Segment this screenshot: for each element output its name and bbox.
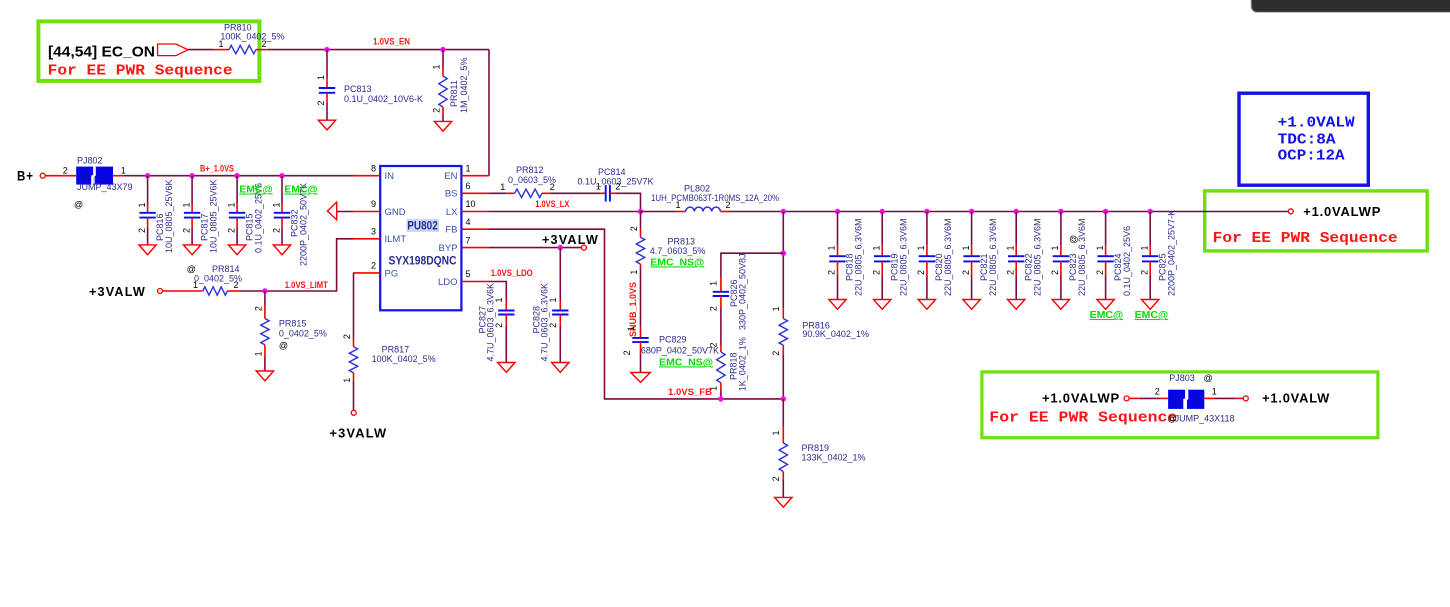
label EMC@ (1135, 309, 1169, 321)
off-page connector EC_ON (158, 44, 188, 56)
svg-text:PR815: PR815 (279, 319, 307, 329)
resistor PR813 4.7_0603_5% (629, 212, 705, 275)
ground (183, 245, 200, 255)
note box "EC_ON / For EE PWR Sequence" (38, 21, 259, 81)
svg-text:1: 1 (1095, 245, 1105, 250)
capacitor PC816 10U_0805_25V6K (137, 176, 174, 253)
svg-text:PC814: PC814 (598, 167, 626, 177)
label For EE PWR Sequence (989, 410, 1177, 427)
wire (1204, 397, 1243, 399)
svg-text:1: 1 (432, 64, 442, 69)
junction (1148, 209, 1153, 214)
junction (1058, 209, 1063, 214)
svg-text:+3VALW: +3VALW (542, 232, 599, 247)
wire LX to PL802 (641, 211, 677, 213)
svg-text:2: 2 (254, 306, 264, 311)
ground (918, 300, 935, 310)
svg-text:For EE PWR Sequence: For EE PWR Sequence (989, 410, 1177, 427)
net label 1.0VS_FB (668, 387, 713, 397)
svg-text:PJ802: PJ802 (77, 156, 103, 166)
svg-text:IN: IN (385, 171, 395, 182)
svg-text:1UH_PCMB063T-1R0MS_12A_20%: 1UH_PCMB063T-1R0MS_12A_20% (651, 193, 779, 203)
svg-text:0.1U_0402_10V6-K: 0.1U_0402_10V6-K (344, 94, 423, 104)
capacitor PC819 22U_0805_6.3V6M (871, 212, 908, 300)
svg-text:1: 1 (1005, 245, 1015, 250)
ground (139, 245, 156, 255)
svg-text:EMC_NS@: EMC_NS@ (659, 356, 713, 368)
svg-text:EMC@: EMC@ (1090, 309, 1124, 321)
svg-text:@: @ (187, 264, 196, 274)
net label 1.0VS_LX (535, 199, 569, 209)
browser overlay bar (1251, 0, 1450, 12)
svg-text:1: 1 (500, 182, 505, 192)
svg-text:0_0402_5%: 0_0402_5% (279, 329, 327, 339)
svg-text:2: 2 (182, 228, 192, 233)
op-amp regulator U1 PU802 SYX198DQNC (353, 163, 489, 310)
svg-text:EN: EN (444, 171, 457, 182)
port +1.0VALW (1243, 391, 1330, 406)
wire (551, 192, 601, 194)
wire EC_ON to PR810 (188, 49, 229, 51)
note box +1.0VALWP / For EE PWR Sequence (1205, 191, 1428, 251)
wire net 1.0VS_LX (489, 211, 641, 213)
svg-text:JUMP_43X118: JUMP_43X118 (1175, 414, 1235, 424)
wire net +1.0VALWP rail (730, 211, 1289, 213)
svg-text:PR811: PR811 (449, 80, 459, 107)
power port +3VALW (542, 232, 599, 250)
ground (874, 300, 891, 310)
svg-text:[44,54] EC_ON: [44,54] EC_ON (48, 44, 155, 61)
ground (256, 371, 273, 381)
capacitor PC827 4.7U_0603_6.3V6K (478, 283, 515, 363)
svg-text:BYP: BYP (438, 243, 457, 254)
svg-text:PC829: PC829 (659, 335, 687, 345)
label [44,54] EC_ON (48, 44, 155, 61)
svg-text:1: 1 (1193, 395, 1198, 405)
svg-text:1: 1 (193, 280, 198, 290)
label For EE PWR Sequence (1213, 230, 1398, 247)
svg-text:@: @ (74, 200, 83, 210)
svg-text:22U_0805_6.3V6M: 22U_0805_6.3V6M (1077, 218, 1087, 296)
jumper PJ803 JUMP_43X118 (1155, 373, 1235, 424)
capacitor PC815 0.1U_0402_25V6 (227, 176, 264, 253)
svg-text:+1.0VALWP: +1.0VALWP (1042, 391, 1120, 406)
capacitor PC826 330P_0402_50V8J (709, 253, 748, 345)
svg-text:10U_0805_25V6K: 10U_0805_25V6K (209, 179, 219, 253)
svg-text:2: 2 (1155, 386, 1160, 396)
ground (775, 497, 792, 507)
svg-text:100K_0402_5%: 100K_0402_5% (372, 354, 436, 364)
ground (1052, 300, 1069, 310)
svg-text:2: 2 (871, 270, 881, 275)
svg-text:1: 1 (709, 386, 719, 391)
svg-text:6: 6 (466, 181, 471, 191)
ground (434, 121, 451, 131)
svg-text:1: 1 (629, 270, 639, 275)
svg-text:PC813: PC813 (344, 84, 372, 94)
svg-text:FB: FB (445, 225, 457, 236)
svg-text:0.1U_0402_25V6: 0.1U_0402_25V6 (1122, 226, 1132, 296)
svg-text:4.7U_0603_6.3V6K: 4.7U_0603_6.3V6K (486, 283, 496, 362)
svg-text:1.0VS_LX: 1.0VS_LX (535, 199, 569, 209)
svg-text:PR817: PR817 (382, 345, 410, 355)
capacitor PC829 680P_0402_50V7K (622, 326, 719, 372)
svg-text:2: 2 (1174, 395, 1179, 405)
svg-text:1: 1 (675, 200, 680, 210)
svg-text:5: 5 (466, 269, 471, 279)
svg-text:2: 2 (771, 351, 781, 356)
svg-text:2: 2 (63, 166, 68, 176)
svg-text:PL802: PL802 (684, 183, 710, 193)
svg-text:@: @ (279, 341, 288, 351)
wire BYP net (489, 247, 581, 249)
wire (617, 193, 641, 211)
svg-text:330P_0402_50V8J: 330P_0402_50V8J (737, 253, 747, 330)
svg-text:1: 1 (271, 202, 281, 207)
svg-text:+1.0VALWP: +1.0VALWP (1303, 204, 1381, 219)
svg-text:1: 1 (254, 351, 264, 356)
svg-text:EMC@: EMC@ (284, 184, 318, 196)
svg-text:+3VALW: +3VALW (89, 284, 146, 299)
svg-text:7: 7 (466, 235, 471, 245)
svg-text:133K_0402_1%: 133K_0402_1% (802, 453, 866, 463)
svg-text:100K_0402_5%: 100K_0402_5% (220, 32, 284, 42)
net label 1.0VS_LDO (491, 268, 533, 278)
svg-text:1: 1 (827, 245, 837, 250)
resistor PR812 0_0603_5% (500, 165, 556, 198)
svg-text:2: 2 (271, 228, 281, 233)
resistor PR818 1K_0402_1% (709, 337, 748, 399)
svg-text:2: 2 (709, 342, 719, 347)
svg-text:1: 1 (466, 163, 471, 173)
wire output to divider (782, 212, 784, 309)
svg-text:2: 2 (82, 171, 87, 181)
resistor PR814 0_0402_5% (163, 264, 243, 295)
svg-text:1: 1 (961, 245, 971, 250)
jumper PJ802 JUMP_43X79 (63, 156, 133, 210)
wire (1129, 397, 1168, 399)
junction (1103, 209, 1108, 214)
svg-text:4: 4 (466, 217, 471, 227)
junction (145, 173, 150, 178)
capacitor PC823 22U_0805_6.3V6M (1050, 212, 1087, 300)
svg-text:1: 1 (121, 166, 126, 176)
svg-text:1: 1 (1139, 245, 1149, 250)
resistor PR810 100K_0402_5% (218, 23, 284, 54)
svg-text:2: 2 (432, 108, 442, 113)
svg-text:JUMP_43X79: JUMP_43X79 (77, 182, 133, 192)
junction (718, 396, 723, 401)
svg-text:2: 2 (371, 261, 376, 271)
svg-text:1: 1 (771, 430, 781, 435)
svg-text:2: 2 (961, 270, 971, 275)
ground (552, 363, 569, 373)
svg-text:22U_0805_6.3V6M: 22U_0805_6.3V6M (943, 218, 953, 296)
svg-text:GND: GND (385, 207, 406, 218)
port +1.0VALWP (1042, 391, 1129, 406)
svg-text:22U_0805_6.3V6M: 22U_0805_6.3V6M (898, 218, 908, 296)
svg-text:2: 2 (726, 200, 731, 210)
svg-text:2: 2 (622, 350, 632, 355)
resistor PR815 0_0402_5% (254, 291, 327, 371)
capacitor PC824 0.1U_0402_25V6 (1095, 212, 1132, 300)
svg-text:2: 2 (1005, 270, 1015, 275)
junction (969, 209, 974, 214)
svg-text:LX: LX (446, 207, 458, 218)
port arrow GND (327, 202, 353, 220)
label OCP:12A (1278, 147, 1345, 164)
ground (829, 300, 846, 310)
wire branch to PC826 (721, 253, 783, 277)
inductor PL802 1UH_PCMB063T-1R0MS_12A_20% (651, 183, 779, 211)
note box PJ803 / For EE PWR Sequence (982, 372, 1378, 438)
net label 1.0VS_EN (373, 37, 410, 47)
wire BS net (489, 192, 507, 194)
svg-text:2: 2 (234, 280, 239, 290)
svg-text:22U_0805_6.3V6M: 22U_0805_6.3V6M (988, 218, 998, 296)
ground (1008, 300, 1025, 310)
label EMC@ (1090, 309, 1124, 321)
svg-text:1: 1 (1050, 245, 1060, 250)
ground (631, 373, 651, 383)
svg-text:1: 1 (101, 171, 106, 181)
wire B+ to jumper (45, 175, 76, 177)
svg-text:1: 1 (137, 202, 147, 207)
junction (1014, 209, 1019, 214)
junction (234, 173, 239, 178)
svg-text:2: 2 (709, 306, 719, 311)
svg-text:2: 2 (1139, 270, 1149, 275)
capacitor PC828 4.7U_0603_6.3V6K (532, 248, 569, 363)
port +1.0VALWP (1288, 204, 1381, 219)
svg-text:3: 3 (371, 227, 376, 237)
ground (228, 245, 245, 255)
svg-text:2: 2 (916, 270, 926, 275)
wire net 1.0VS_LIMT (240, 239, 353, 291)
svg-text:+3VALW: +3VALW (330, 426, 388, 441)
svg-text:2: 2 (342, 334, 352, 339)
ground (1097, 300, 1114, 310)
svg-text:For EE PWR Sequence: For EE PWR Sequence (48, 63, 233, 80)
junction (558, 245, 563, 250)
svg-text:2: 2 (827, 270, 837, 275)
svg-text:8: 8 (371, 163, 376, 173)
svg-text:90.9K_0402_1%: 90.9K_0402_1% (802, 329, 869, 339)
svg-text:EMC_NS@: EMC_NS@ (650, 256, 704, 268)
wire PG to PR817 (353, 273, 355, 338)
svg-text:1: 1 (1212, 386, 1217, 396)
svg-text:1: 1 (626, 326, 636, 331)
resistor PR811 1M_0402_5% (432, 50, 470, 122)
wire net B+_1.0VS (113, 175, 353, 177)
svg-text:SYX198DQNC: SYX198DQNC (389, 256, 457, 268)
resistor PR817 100K_0402_5% (342, 334, 435, 410)
wire LDO net (489, 282, 506, 301)
label +1.0VALW (1278, 114, 1355, 131)
wire net 1.0VS_EN (268, 49, 489, 51)
label EMC@ (284, 184, 318, 196)
svg-text:1: 1 (916, 245, 926, 250)
wire EN riser (488, 50, 490, 176)
spec box +1.0VALW TDC/OCP (1239, 93, 1368, 185)
junction (279, 173, 284, 178)
svg-text:2: 2 (1095, 270, 1105, 275)
junction (835, 209, 840, 214)
svg-text:1: 1 (218, 39, 223, 49)
svg-text:PR813: PR813 (668, 236, 696, 246)
label @ (1069, 235, 1079, 244)
svg-text:B+_1.0VS: B+_1.0VS (200, 164, 234, 174)
svg-text:PR819: PR819 (802, 443, 830, 453)
svg-text:2: 2 (771, 476, 781, 481)
svg-text:2: 2 (550, 182, 555, 192)
svg-text:PU802: PU802 (407, 220, 438, 232)
svg-text:BS: BS (445, 189, 458, 200)
capacitor PC814 0.1U_0603_25V7K (578, 167, 654, 202)
svg-text:EMC@: EMC@ (1135, 309, 1169, 321)
svg-text:PJ803: PJ803 (1169, 373, 1195, 383)
svg-text:10: 10 (466, 199, 476, 209)
net label 1.0VS_LIMT (285, 280, 328, 290)
svg-text:22U_0805_6.3V6M: 22U_0805_6.3V6M (854, 218, 864, 296)
ground (963, 300, 980, 310)
svg-text:2: 2 (1050, 270, 1060, 275)
svg-text:1: 1 (316, 75, 326, 80)
junction (781, 209, 786, 214)
svg-text:1.0VS_FB: 1.0VS_FB (668, 387, 713, 397)
label TDC:8A (1278, 131, 1336, 148)
junction (324, 47, 329, 52)
ground (1142, 300, 1159, 310)
power port +3VALW (330, 410, 388, 440)
capacitor PC822 22U_0805_6.3V6M (1005, 212, 1042, 300)
svg-text:@: @ (1069, 235, 1079, 244)
power port +3VALW (89, 284, 163, 299)
wire net 1.0VS_FB (489, 229, 783, 399)
svg-text:4.7U_0603_6.3V6K: 4.7U_0603_6.3V6K (540, 283, 550, 362)
svg-text:For EE PWR Sequence: For EE PWR Sequence (1213, 230, 1398, 247)
wire net SNUB_1.0VS (640, 267, 642, 327)
svg-text:1: 1 (596, 182, 601, 192)
svg-text:1K_0402_1%: 1K_0402_1% (737, 337, 747, 391)
svg-text:1: 1 (871, 245, 881, 250)
svg-text:9: 9 (371, 199, 376, 209)
svg-text:1: 1 (709, 281, 719, 286)
svg-text:4.7_0603_5%: 4.7_0603_5% (650, 246, 706, 256)
capacitor PC820 22U_0805_6.3V6M (916, 212, 953, 300)
label For EE PWR Sequence (48, 63, 233, 80)
svg-text:1.0VS_LDO: 1.0VS_LDO (491, 268, 533, 278)
svg-text:1M_0402_5%: 1M_0402_5% (459, 57, 469, 113)
svg-text:1: 1 (342, 378, 352, 383)
svg-text:2: 2 (629, 226, 639, 231)
junction (440, 47, 445, 52)
capacitor PC818 22U_0805_6.3V6M (827, 212, 864, 300)
junction (781, 396, 786, 401)
svg-text:ILMT: ILMT (385, 234, 407, 245)
svg-text:2: 2 (616, 182, 621, 192)
ground (318, 120, 335, 130)
svg-text:EMC@: EMC@ (239, 184, 273, 196)
label EMC@ (239, 184, 273, 196)
junction (262, 288, 267, 293)
junction (189, 173, 194, 178)
net label SNUB_1.0VS (628, 282, 638, 337)
svg-text:1: 1 (182, 202, 192, 207)
ground (498, 363, 515, 373)
svg-text:1.0VS_EN: 1.0VS_EN (373, 37, 410, 47)
junction (638, 209, 643, 214)
svg-text:PG: PG (385, 268, 399, 279)
junction (880, 209, 885, 214)
svg-text:OCP:12A: OCP:12A (1278, 147, 1345, 164)
svg-text:2200P_0402_25V7-K: 2200P_0402_25V7-K (1166, 210, 1176, 296)
svg-text:10U_0805_25V6K: 10U_0805_25V6K (164, 179, 174, 253)
svg-text:1.0VS_LIMT: 1.0VS_LIMT (285, 280, 328, 290)
svg-text:680P_0402_50V7K: 680P_0402_50V7K (641, 345, 719, 355)
capacitor PC821 22U_0805_6.3V6M (961, 212, 998, 300)
junction (781, 251, 786, 256)
resistor PR816 90.9K_0402_1% (771, 306, 869, 399)
svg-text:LDO: LDO (438, 277, 458, 288)
net label B+_1.0VS (200, 164, 234, 174)
svg-text:2: 2 (262, 39, 267, 49)
svg-text:B+: B+ (17, 168, 34, 184)
svg-text:2: 2 (316, 100, 326, 105)
svg-text:PR814: PR814 (212, 264, 240, 274)
svg-text:+1.0VALW: +1.0VALW (1278, 114, 1355, 131)
port B+ (17, 168, 45, 184)
svg-text:22U_0805_6.3V6M: 22U_0805_6.3V6M (1032, 218, 1042, 296)
svg-text:TDC:8A: TDC:8A (1278, 131, 1336, 148)
capacitor PC817 10U_0805_25V6K (182, 176, 219, 253)
capacitor PC832 2200P_0402_50V7K (271, 176, 308, 266)
ground (273, 245, 290, 255)
svg-text:PR812: PR812 (516, 165, 544, 175)
junction (924, 209, 929, 214)
svg-text:+1.0VALW: +1.0VALW (1262, 391, 1330, 406)
capacitor PC825 2200P_0402_25V7-K (1139, 210, 1176, 300)
resistor PR819 133K_0402_1% (771, 399, 865, 498)
svg-text:@: @ (1204, 373, 1213, 383)
svg-text:1: 1 (227, 202, 237, 207)
svg-text:1: 1 (771, 306, 781, 311)
capacitor PC813 0.1U_0402_10V6-K (316, 50, 423, 121)
svg-text:2: 2 (227, 228, 237, 233)
svg-text:2: 2 (137, 228, 147, 233)
